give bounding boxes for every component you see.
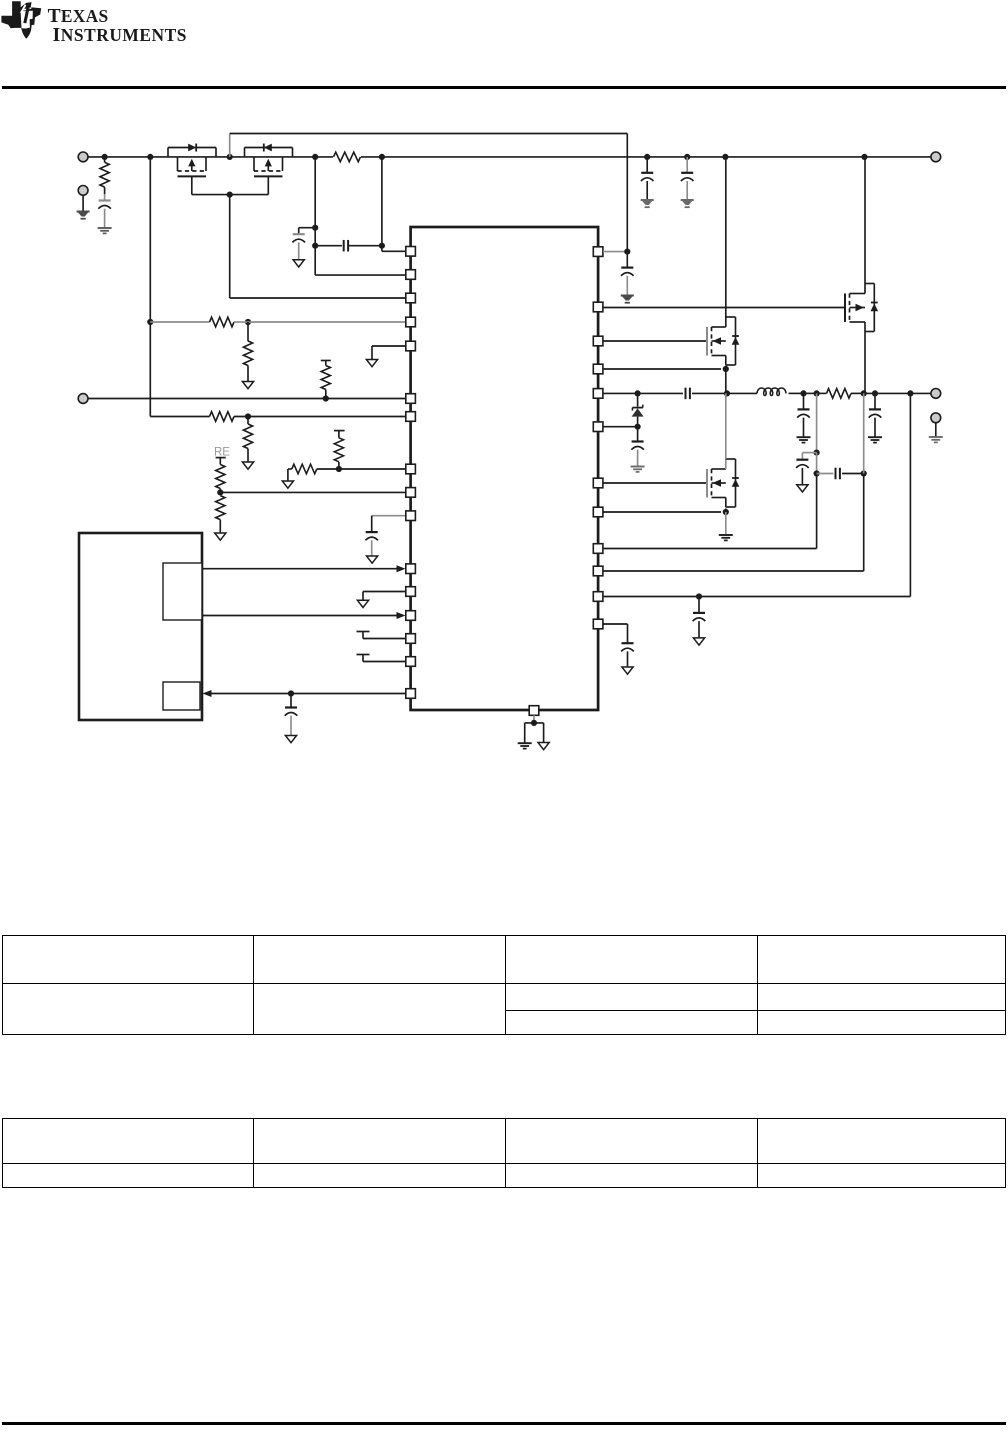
svg-text:RE: RE bbox=[214, 447, 230, 459]
